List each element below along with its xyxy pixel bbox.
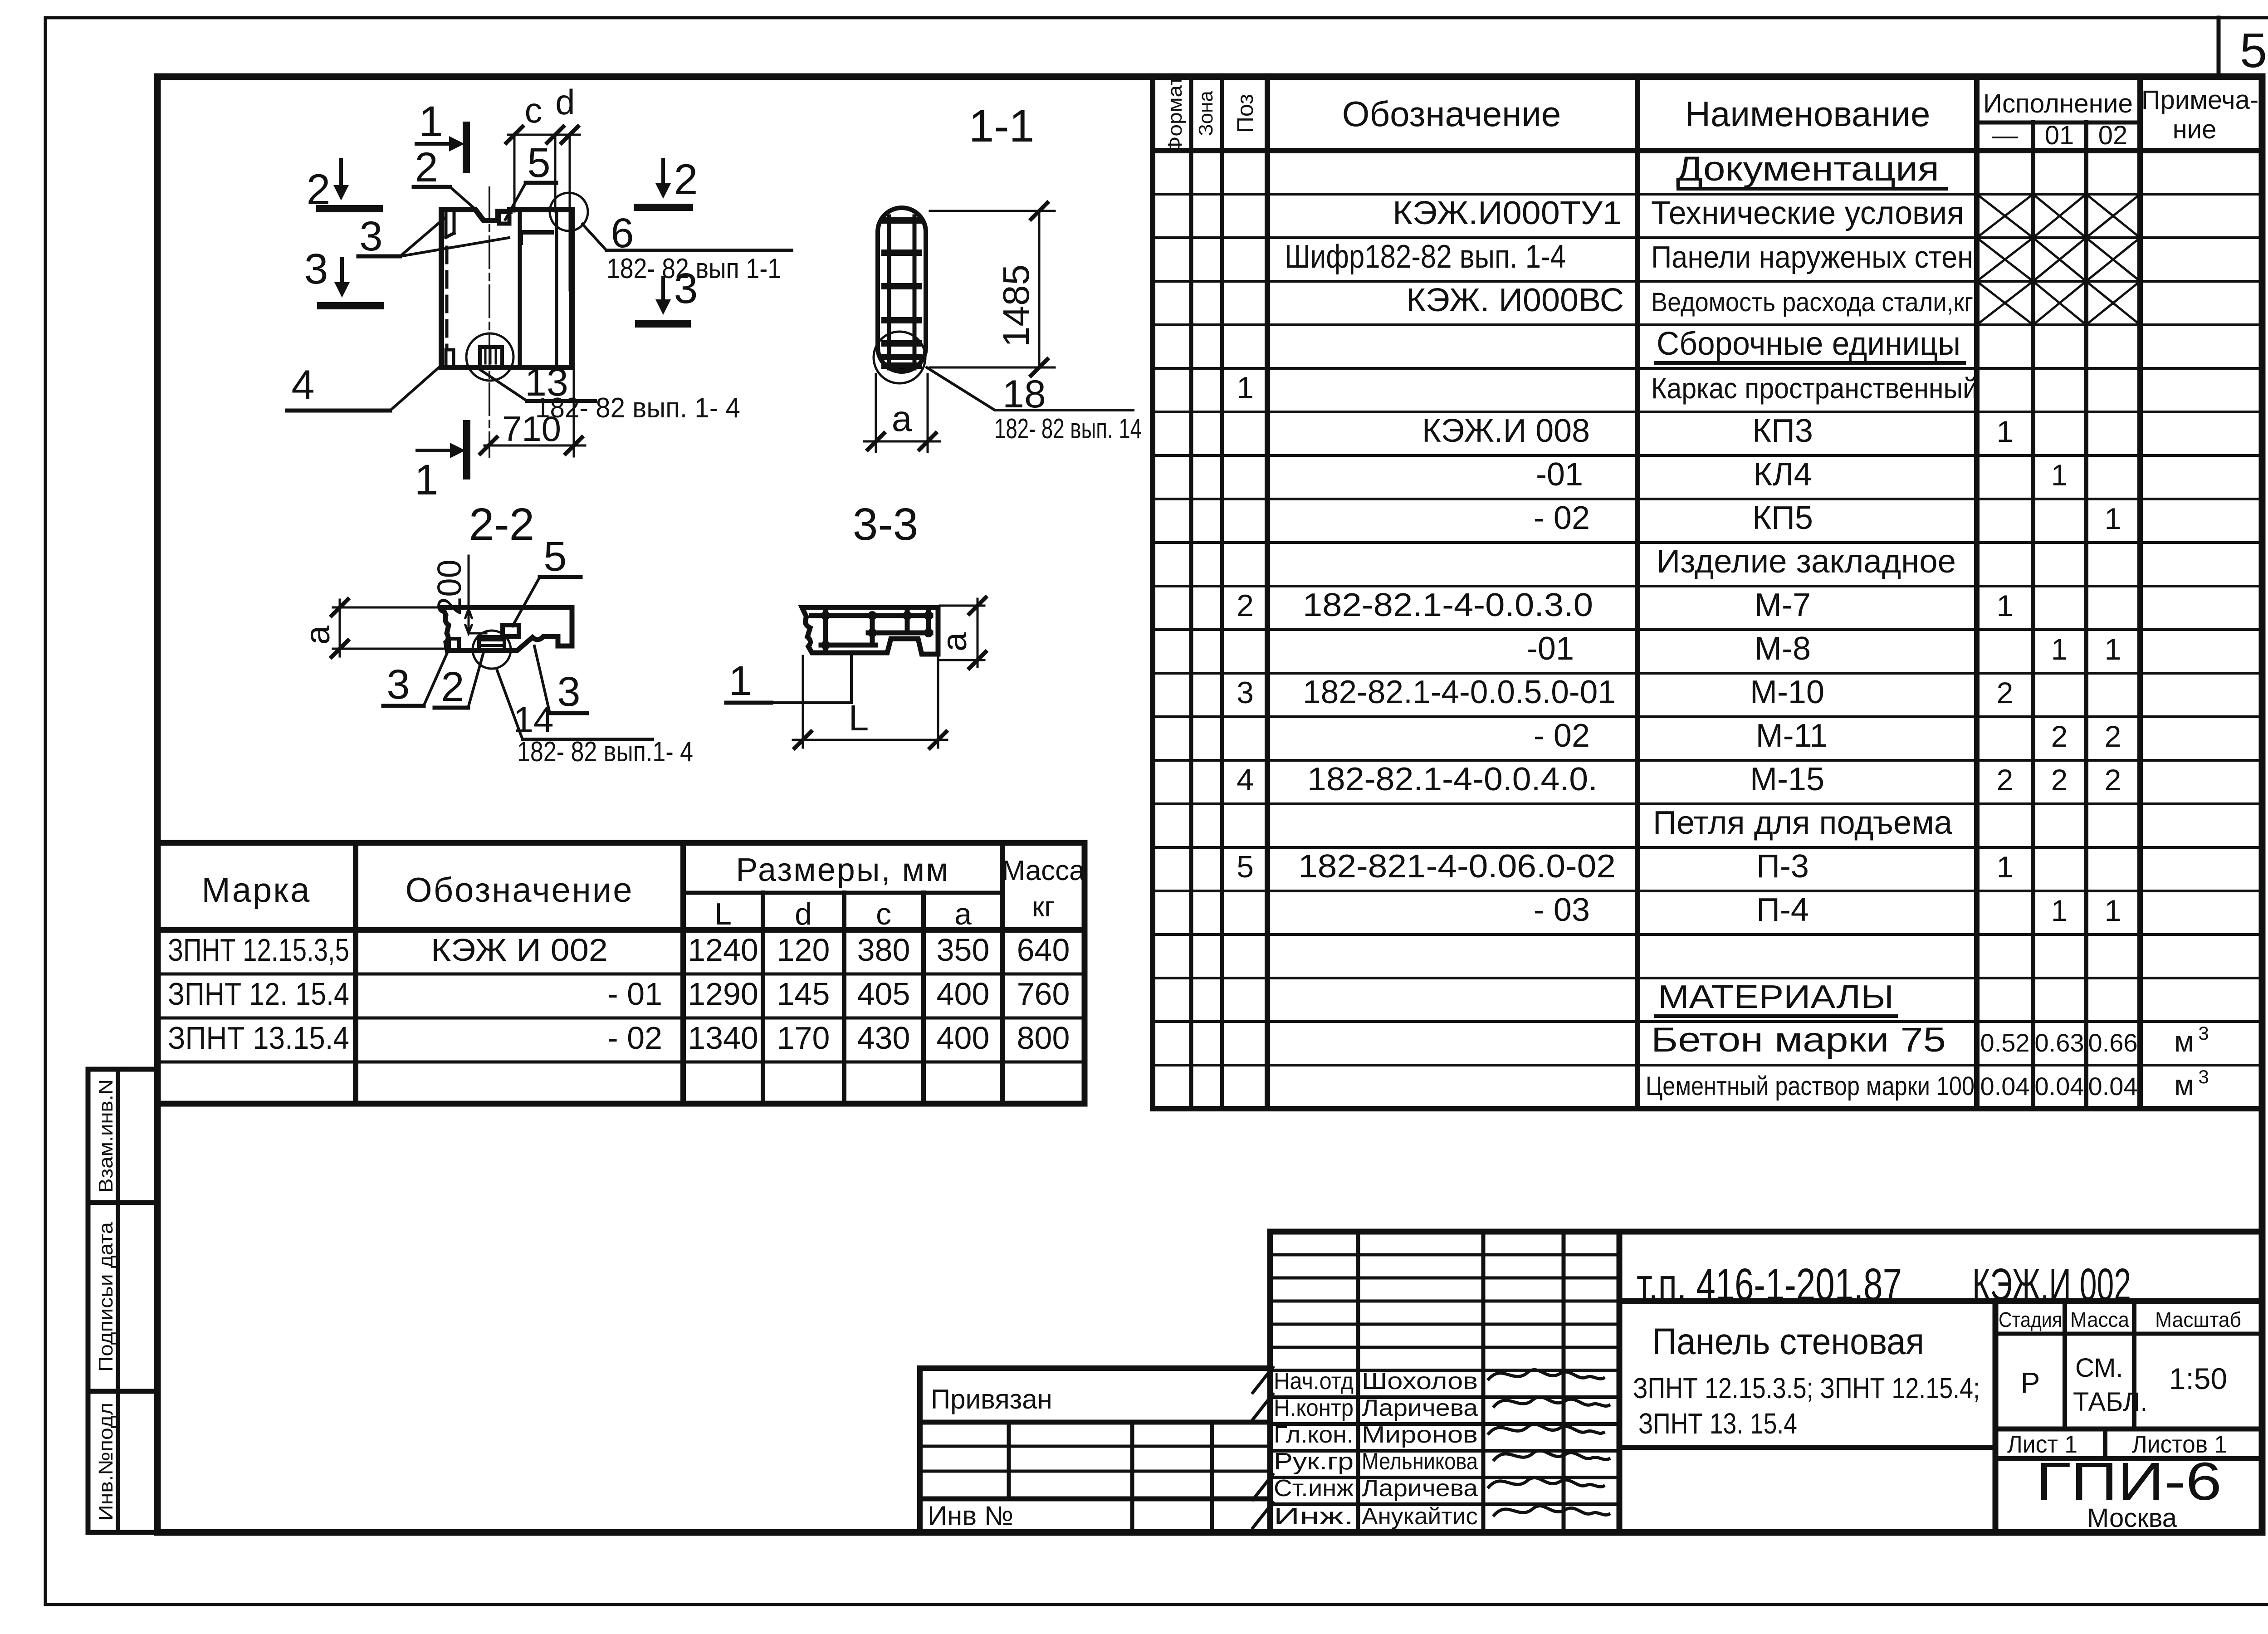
dimension 200 (430, 556, 486, 633)
svg-text:Масштаб: Масштаб (2155, 1308, 2241, 1331)
svg-text:3: 3 (1237, 675, 1254, 710)
marka table header texts (202, 852, 1085, 931)
svg-text:м: м (2174, 1069, 2194, 1101)
svg-text:Подписьи дата: Подписьи дата (95, 1222, 117, 1372)
svg-text:400: 400 (937, 1020, 990, 1056)
svg-text:400: 400 (937, 976, 990, 1012)
svg-text:Н.контр: Н.контр (1274, 1395, 1354, 1421)
stage mass scale header (1995, 1301, 2262, 1532)
svg-text:430: 430 (857, 1020, 910, 1056)
svg-text:Анукайтис: Анукайтис (1362, 1503, 1478, 1530)
spec table column Наименование entries (1646, 150, 1978, 1101)
signature labels and names (1274, 1368, 1478, 1530)
embedded item detail at notch (poz 5) (499, 211, 509, 224)
svg-text:1:50: 1:50 (2169, 1362, 2227, 1395)
dimension c d (506, 82, 580, 290)
svg-text:КП5: КП5 (1752, 500, 1813, 536)
svg-text:800: 800 (1017, 1020, 1070, 1056)
svg-text:П-4: П-4 (1756, 892, 1809, 928)
svg-text:3: 3 (386, 661, 410, 708)
svg-text:L: L (714, 897, 732, 931)
svg-text:Шохолов: Шохолов (1362, 1368, 1478, 1394)
svg-text:Взам.инв.N: Взам.инв.N (95, 1079, 117, 1193)
dimension 1485 (930, 203, 1055, 376)
dimension a right of 3-3 (935, 597, 986, 668)
svg-text:0.52: 0.52 (1980, 1028, 2030, 1057)
svg-text:—: — (1992, 121, 2018, 150)
section 3-3 title (853, 499, 919, 550)
section 1-1 reinforcement cage outline (878, 208, 926, 372)
svg-text:Инв.№подл: Инв.№подл (95, 1403, 117, 1521)
2-2 label 3 right (534, 646, 587, 715)
svg-text:ЗПНТ 12.15.3,5: ЗПНТ 12.15.3,5 (168, 932, 349, 968)
crossed-out execution cells (1977, 194, 2140, 325)
svg-text:350: 350 (937, 932, 990, 968)
label 4 with leader (287, 362, 440, 411)
svg-text:3: 3 (359, 213, 382, 259)
svg-text:Исполнение: Исполнение (1983, 89, 2133, 118)
section 1-1 rebar verticals (889, 216, 914, 368)
linked box (Привязан) (920, 1368, 1270, 1532)
front view centerline (489, 187, 490, 457)
svg-text:2: 2 (1997, 676, 2014, 709)
svg-text:2-2: 2-2 (469, 499, 535, 550)
svg-text:т.п. 416-1-201.87: т.п. 416-1-201.87 (1637, 1259, 1902, 1310)
svg-text:М-8: М-8 (1755, 631, 1811, 667)
svg-text:П-3: П-3 (1756, 848, 1809, 885)
svg-text:КЛ4: КЛ4 (1753, 456, 1812, 493)
section 1-1 rungs (885, 220, 919, 366)
2-2 label 3 left (383, 649, 449, 708)
svg-text:4: 4 (291, 362, 314, 408)
section 1-1 detail circle 18 (874, 332, 925, 383)
svg-text:Цементный раствор марки 100: Цементный раствор марки 100 (1646, 1071, 1975, 1101)
svg-text:- 02: - 02 (1534, 718, 1590, 754)
section 2-2 left foot detail (449, 639, 459, 649)
svg-text:182- 82 вып.1- 4: 182- 82 вып.1- 4 (517, 736, 693, 768)
svg-text:2: 2 (1997, 763, 2014, 797)
svg-text:Формат: Формат (1164, 76, 1186, 153)
organization logo (2036, 1452, 2222, 1533)
svg-text:a: a (892, 398, 912, 439)
svg-text:Петля для подъема: Петля для подъема (1653, 805, 1953, 841)
svg-text:кг: кг (1032, 891, 1055, 923)
svg-text:ЗПНТ 13.15.4: ЗПНТ 13.15.4 (168, 1020, 349, 1056)
section 2-2 embedded box (poz 5) (503, 625, 519, 636)
svg-text:Наименование: Наименование (1685, 94, 1931, 134)
front view inner edges (520, 210, 557, 367)
svg-text:3: 3 (2198, 1022, 2209, 1044)
svg-text:3: 3 (2198, 1066, 2209, 1087)
svg-text:0.04: 0.04 (2035, 1072, 2084, 1101)
svg-text:1: 1 (2051, 632, 2068, 666)
detail circle 13 (466, 333, 513, 381)
dimension L (793, 656, 947, 748)
svg-text:1290: 1290 (688, 976, 758, 1012)
svg-text:М-15: М-15 (1750, 761, 1824, 797)
svg-text:02: 02 (2098, 121, 2128, 150)
svg-text:2: 2 (2105, 719, 2121, 753)
svg-text:760: 760 (1017, 976, 1070, 1012)
svg-text:1240: 1240 (688, 932, 758, 968)
label 18 with leader (927, 367, 1142, 445)
svg-text:1: 1 (2051, 894, 2068, 927)
svg-text:Москва: Москва (2087, 1503, 2177, 1533)
title block outline (1270, 1232, 2262, 1532)
svg-text:Нач.отд: Нач.отд (1274, 1368, 1354, 1394)
svg-text:3: 3 (304, 245, 328, 293)
svg-text:18: 18 (1002, 372, 1046, 416)
svg-text:Поз: Поз (1232, 94, 1258, 133)
svg-text:М-11: М-11 (1756, 718, 1828, 754)
anchor channel detail (poz 13) (480, 347, 502, 366)
svg-text:120: 120 (777, 932, 830, 968)
marka table grid (157, 843, 1085, 1104)
spec table execution quantities (1980, 415, 2209, 1101)
label 5 with leader (505, 140, 556, 220)
section 2-2 outline (442, 607, 572, 651)
signature squiggles (1489, 1370, 1609, 1515)
svg-text:- 02: - 02 (607, 1020, 662, 1056)
svg-text:1-1: 1-1 (969, 101, 1035, 152)
svg-text:5: 5 (2240, 23, 2267, 78)
svg-text:1: 1 (2051, 458, 2068, 492)
svg-text:1: 1 (1997, 850, 2014, 884)
svg-text:Инв №: Инв № (928, 1501, 1013, 1531)
svg-text:Изделие закладное: Изделие закладное (1657, 543, 1956, 580)
svg-text:-01: -01 (1536, 456, 1583, 493)
svg-text:380: 380 (857, 932, 910, 968)
svg-text:Примеча-: Примеча- (2141, 85, 2258, 115)
svg-text:Стадия: Стадия (1999, 1308, 2062, 1331)
left margin boxes (88, 1069, 157, 1532)
svg-text:Обозначение: Обозначение (405, 871, 633, 910)
svg-text:c: c (525, 90, 543, 130)
svg-text:КП3: КП3 (1752, 413, 1813, 449)
marka table data rows (168, 932, 1070, 1056)
svg-text:Зона: Зона (1195, 91, 1217, 136)
svg-text:м: м (2174, 1025, 2194, 1058)
svg-text:Масса: Масса (2070, 1308, 2129, 1331)
svg-text:Ларичева: Ларичева (1362, 1395, 1478, 1421)
svg-text:d: d (795, 897, 812, 931)
svg-text:ЗПНТ 13. 15.4: ЗПНТ 13. 15.4 (1638, 1407, 1797, 1440)
label 3 with leader (358, 213, 509, 259)
svg-text:Ларичева: Ларичева (1362, 1475, 1478, 1502)
svg-text:1: 1 (1997, 415, 2014, 448)
svg-text:Технические условия: Технические условия (1651, 195, 1964, 231)
dimension a left of 2-2 (298, 599, 445, 657)
section 3-3 frame node dots (821, 611, 933, 650)
document number header (1619, 1259, 2262, 1310)
svg-text:Ведомость расхода стали,кг: Ведомость расхода стали,кг (1651, 288, 1973, 317)
section 2-2 channel detail (poz 14) (479, 637, 504, 650)
svg-text:Обозначение: Обозначение (1342, 94, 1561, 134)
svg-text:Бетон марки 75: Бетон марки 75 (1651, 1021, 1946, 1059)
svg-text:1: 1 (2105, 502, 2121, 535)
svg-text:2: 2 (1237, 588, 1254, 623)
svg-text:Р: Р (2021, 1366, 2040, 1399)
spec table column Обозначение entries (1285, 195, 1624, 928)
svg-text:182- 82 вып 1-1: 182- 82 вып 1-1 (606, 253, 781, 284)
svg-text:Рук.гр: Рук.гр (1274, 1448, 1354, 1475)
svg-text:Ст.инж: Ст.инж (1274, 1475, 1354, 1502)
svg-text:3: 3 (557, 669, 580, 715)
svg-text:4: 4 (1237, 763, 1254, 797)
specification table grid (1153, 77, 2262, 1109)
svg-text:ГПИ-6: ГПИ-6 (2036, 1452, 2222, 1512)
label 13 with leader (478, 361, 740, 424)
svg-text:01: 01 (2045, 121, 2074, 150)
2-2 label 2 (435, 652, 484, 710)
svg-text:182-82.1-4-0.0.3.0: 182-82.1-4-0.0.3.0 (1303, 587, 1593, 623)
2-2 label 14 with leader (497, 670, 693, 768)
label 2 with leader (414, 144, 480, 213)
detail circle 6 (550, 193, 588, 231)
svg-text:1340: 1340 (688, 1020, 758, 1056)
leader slashes left of signature rows (1253, 1367, 1273, 1528)
svg-text:М-10: М-10 (1750, 674, 1824, 710)
svg-text:- 02: - 02 (1534, 500, 1590, 536)
svg-text:КЭЖ. И000ВС: КЭЖ. И000ВС (1406, 282, 1624, 318)
svg-text:1: 1 (2105, 894, 2121, 927)
svg-text:a: a (935, 632, 974, 651)
section 2-2 detail circle 14 (473, 631, 511, 669)
label 6 with leader (582, 210, 792, 284)
spec table header texts (1164, 76, 2258, 153)
svg-text:a: a (954, 897, 972, 931)
svg-text:1: 1 (1997, 589, 2014, 622)
svg-text:5: 5 (543, 533, 567, 580)
sheet count row (1995, 1429, 2262, 1458)
front view panel outline (441, 210, 572, 367)
dimension 710 (480, 369, 585, 456)
svg-text:- 01: - 01 (607, 976, 662, 1012)
svg-text:Шифр182-82 вып. 1-4: Шифр182-82 вып. 1-4 (1285, 239, 1566, 275)
svg-text:1: 1 (415, 456, 439, 504)
svg-text:М-7: М-7 (1755, 587, 1811, 623)
svg-text:Панели наруженых стен: Панели наруженых стен (1651, 240, 1973, 274)
svg-text:640: 640 (1017, 932, 1070, 968)
svg-text:182-821-4-0.06.0-02: 182-821-4-0.06.0-02 (1298, 848, 1616, 885)
svg-text:2: 2 (2051, 719, 2068, 753)
front view weld tick (521, 232, 552, 243)
section mark 3 left (304, 245, 380, 306)
3-3 label 1 with leader (726, 654, 851, 704)
panel name box (1619, 1321, 1995, 1448)
front view bottom-left tab (446, 350, 454, 366)
svg-text:МАТЕРИАЛЫ: МАТЕРИАЛЫ (1658, 979, 1894, 1015)
svg-text:0.04: 0.04 (2088, 1072, 2138, 1101)
svg-text:c: c (876, 897, 891, 931)
svg-text:d: d (555, 82, 575, 122)
svg-text:ЗПНТ 12.15.3.5; ЗПНТ 12.15.4;: ЗПНТ 12.15.3.5; ЗПНТ 12.15.4; (1633, 1372, 1980, 1404)
svg-text:2: 2 (2105, 763, 2121, 797)
svg-text:Марка: Марка (202, 871, 311, 910)
svg-text:1: 1 (2105, 632, 2121, 666)
svg-text:1: 1 (419, 98, 443, 146)
svg-text:- 03: - 03 (1534, 892, 1590, 928)
svg-text:Привязан: Привязан (931, 1384, 1052, 1414)
section mark 1 top (416, 98, 466, 170)
svg-text:Инж.: Инж. (1274, 1503, 1354, 1530)
svg-text:Документация: Документация (1676, 150, 1939, 188)
section mark 2 left (307, 160, 379, 214)
dimension a under 1-1 (864, 374, 940, 452)
svg-text:182-82.1-4-0.0.4.0.: 182-82.1-4-0.0.4.0. (1307, 761, 1598, 797)
svg-text:Каркас пространственный: Каркас пространственный (1651, 372, 1978, 405)
section mark 3 right (639, 264, 698, 324)
svg-text:ЗПНТ 12. 15.4: ЗПНТ 12. 15.4 (168, 976, 349, 1012)
svg-text:1485: 1485 (996, 264, 1037, 347)
svg-text:КЭЖ И 002: КЭЖ И 002 (431, 932, 608, 968)
svg-text:КЭЖ.И 008: КЭЖ.И 008 (1422, 413, 1590, 449)
svg-text:182-82.1-4-0.0.5.0-01: 182-82.1-4-0.0.5.0-01 (1303, 674, 1616, 710)
svg-text:КЭЖ.И000ТУ1: КЭЖ.И000ТУ1 (1393, 195, 1622, 231)
svg-text:0.66: 0.66 (2088, 1028, 2138, 1057)
section 1-1 title (969, 101, 1035, 152)
svg-text:0.04: 0.04 (1980, 1072, 2030, 1101)
svg-text:5: 5 (527, 140, 550, 186)
section mark 2 right (637, 156, 698, 207)
sheet number box 5 (2217, 18, 2221, 78)
section 2-2 title (469, 499, 535, 550)
section mark 1 bottom (415, 424, 467, 504)
svg-text:405: 405 (857, 976, 910, 1012)
svg-text:-01: -01 (1527, 631, 1574, 667)
svg-text:1: 1 (728, 658, 752, 704)
svg-text:2: 2 (415, 144, 438, 191)
svg-text:710: 710 (502, 409, 561, 449)
section 3-3 frame profile (poz 1) (811, 609, 931, 651)
svg-text:3-3: 3-3 (853, 499, 919, 550)
svg-text:145: 145 (777, 976, 830, 1012)
svg-text:170: 170 (777, 1020, 830, 1056)
svg-text:5: 5 (1237, 850, 1254, 884)
svg-text:2: 2 (441, 664, 464, 710)
svg-text:2: 2 (2051, 763, 2068, 797)
svg-text:Размеры, мм: Размеры, мм (736, 852, 949, 888)
section 3-3 outline (802, 607, 938, 654)
svg-text:a: a (298, 625, 337, 645)
svg-text:0.63: 0.63 (2035, 1028, 2084, 1057)
sheet number text (2240, 23, 2267, 78)
svg-text:Панель стеновая: Панель стеновая (1652, 1321, 1924, 1362)
2-2 label 5 with leader (513, 533, 581, 626)
svg-text:Масса: Масса (1002, 855, 1085, 886)
svg-text:Миронов: Миронов (1362, 1422, 1478, 1448)
svg-text:СМ.: СМ. (2075, 1353, 2123, 1383)
svg-text:ние: ние (2173, 115, 2217, 144)
front view dashed edge line (445, 247, 449, 348)
svg-text:1: 1 (1237, 371, 1254, 405)
svg-text:Гл.кон.: Гл.кон. (1274, 1422, 1354, 1448)
front view top-left corner tab (446, 211, 454, 237)
svg-text:Сборочные единицы: Сборочные единицы (1657, 326, 1960, 362)
svg-text:Мельникова: Мельникова (1362, 1448, 1478, 1475)
svg-text:ТАБЛ.: ТАБЛ. (2073, 1387, 2147, 1417)
svg-text:182- 82 вып. 1- 4: 182- 82 вып. 1- 4 (535, 392, 740, 424)
svg-text:2: 2 (674, 156, 698, 204)
svg-text:182- 82 вып. 14: 182- 82 вып. 14 (994, 413, 1142, 445)
signature grid (1270, 1232, 1619, 1532)
spec table column Поз entries (1237, 371, 1254, 884)
